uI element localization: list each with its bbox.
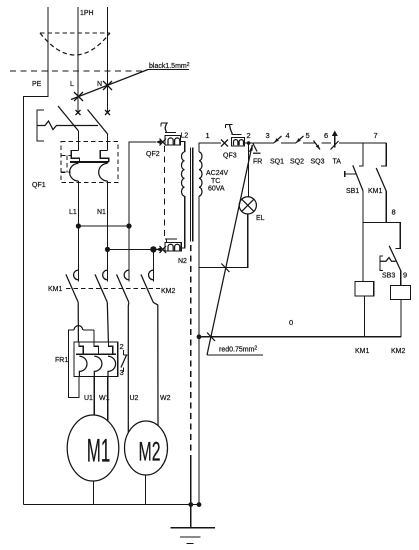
node junction ground <box>188 502 193 507</box>
wire FR1 loop back <box>68 326 94 398</box>
relay FR1 element 2 <box>94 330 102 377</box>
wire SB1 branch riser <box>359 143 363 166</box>
contact FR normally closed <box>253 144 261 154</box>
svg-text:M2: M2 <box>139 437 161 467</box>
contactor KM2 main contact pole1 <box>117 270 130 302</box>
svg-text:1PH: 1PH <box>80 10 94 17</box>
wire PE drop <box>24 7 49 505</box>
wire KM1 pole1 down <box>77 302 79 342</box>
svg-text:2: 2 <box>120 342 124 351</box>
relay FR1 box <box>74 342 118 377</box>
svg-text:KM1: KM1 <box>48 286 63 293</box>
svg-text:L: L <box>70 81 74 88</box>
svg-text:N: N <box>97 81 102 88</box>
svg-text:TC: TC <box>211 178 220 185</box>
wire SQ1 to SQ2 <box>281 142 296 144</box>
boundary dashed separator <box>10 70 145 72</box>
wire KM1 branch down <box>385 191 387 222</box>
wire SB1 branch down <box>362 191 364 282</box>
svg-text:9: 9 <box>403 271 407 280</box>
svg-text:W1: W1 <box>99 395 110 402</box>
svg-text:TA: TA <box>333 159 342 166</box>
breaker QF1 box <box>61 142 118 183</box>
wire SB3 riser <box>395 222 400 248</box>
svg-text:QF2: QF2 <box>146 151 160 158</box>
breaker QF3 <box>221 125 245 147</box>
wire rail N1 tap <box>108 248 161 250</box>
wire rail L1 tap <box>78 225 129 227</box>
breaker QF1 trip linkage dashes <box>61 156 71 173</box>
svg-text:L2: L2 <box>181 133 189 140</box>
breaker QF1 thermal element L <box>71 131 79 162</box>
svg-text:N1: N1 <box>97 209 106 216</box>
wire SQ2 to SQ3 <box>303 142 315 144</box>
switch SQ1 <box>274 136 282 143</box>
svg-text:EL: EL <box>256 215 265 222</box>
coil KM2 <box>391 286 411 300</box>
wire U1 lead <box>93 377 95 416</box>
svg-text:5: 5 <box>306 131 310 140</box>
breaker QF2 bottom pole N2 <box>156 239 181 253</box>
svg-text:PE: PE <box>32 81 42 88</box>
node X crossing on N <box>103 81 112 90</box>
svg-text:0: 0 <box>289 318 293 327</box>
svg-text:M1: M1 <box>87 433 111 469</box>
contactor linkage dashed <box>66 288 160 290</box>
node junction N1 tap <box>150 246 156 252</box>
coil KM1 <box>355 282 374 297</box>
svg-text:7: 7 <box>374 131 378 140</box>
svg-text:SB1: SB1 <box>346 188 359 195</box>
svg-text:2: 2 <box>247 131 251 140</box>
wire lamp bottom <box>199 214 248 268</box>
wire TA to corner <box>339 142 386 144</box>
svg-text:KM2: KM2 <box>161 288 176 295</box>
svg-text:U2: U2 <box>130 395 139 402</box>
wire KM1 pole2 down <box>107 302 108 342</box>
wire KM1 coil down <box>364 296 366 337</box>
transformer TC primary <box>182 152 185 196</box>
breaker QF1 pole L blade <box>58 106 79 131</box>
svg-text:60VA: 60VA <box>208 186 225 193</box>
contact FR1 auxiliary <box>120 342 128 377</box>
wire ground stem <box>190 460 192 528</box>
node junction L1 tap <box>126 223 131 228</box>
breaker QF1 thermal element N <box>100 135 108 163</box>
svg-text:QF1: QF1 <box>32 182 46 189</box>
node X crossing lamp wire <box>221 264 229 273</box>
breaker QF2 linkage <box>164 146 166 238</box>
breaker QF1 pole N blade <box>88 110 109 135</box>
wire secondary top to QF3 <box>199 143 221 152</box>
svg-text:N2: N2 <box>178 258 187 265</box>
wire N1 <box>107 181 109 282</box>
node junction L1 <box>76 223 81 228</box>
motor M1 <box>67 415 119 481</box>
wire W1 lead <box>107 377 109 422</box>
node x mark N terminal <box>105 110 110 115</box>
relay FR1 crossbar <box>76 353 116 355</box>
breaker QF1 handle <box>37 110 98 141</box>
wire QF3 to SQ1 <box>245 142 275 144</box>
svg-text:KM1: KM1 <box>355 348 370 355</box>
switch SQ2 <box>296 136 304 143</box>
wire L drop <box>77 7 79 113</box>
svg-text:KM2: KM2 <box>391 348 406 355</box>
wire KM2 pole2 down <box>153 302 158 425</box>
relay FR1 element 1 <box>79 342 87 377</box>
wire N drop <box>107 7 109 113</box>
breaker QF1 crossbar <box>70 161 109 163</box>
wire KM2 coil down <box>400 300 402 337</box>
transformer TC core <box>191 148 193 242</box>
wire QF2 to transformer <box>181 142 185 152</box>
wire black1.5mm2 leader <box>71 62 190 100</box>
svg-text:SB3: SB3 <box>382 273 395 280</box>
svg-text:FR: FR <box>253 159 262 166</box>
svg-text:FR1: FR1 <box>55 357 68 364</box>
wire primary to N2 breaker <box>181 196 185 248</box>
transformer TC secondary <box>199 152 202 196</box>
contactor KM2 main contact pole2 <box>141 270 154 302</box>
svg-text:8: 8 <box>392 208 396 217</box>
contact KM1 auxiliary <box>376 168 386 191</box>
wire SQ3 to TA <box>322 142 332 144</box>
node x mark L terminal <box>76 110 81 115</box>
wire KM1 branch riser <box>381 143 386 166</box>
svg-text:SQ1: SQ1 <box>270 159 284 166</box>
node X crossing rail 0 <box>207 333 215 342</box>
lamp EL branch <box>248 143 250 197</box>
node junction lamp tap <box>247 141 251 145</box>
svg-text:3: 3 <box>120 368 124 377</box>
svg-text:KM1: KM1 <box>368 188 383 195</box>
svg-text:6: 6 <box>324 131 328 140</box>
wire bottom rail <box>24 504 202 506</box>
wire secondary down rail <box>198 196 200 505</box>
wire KM2 pole2 riser <box>152 249 154 281</box>
wire QF2 feed riser <box>129 142 156 282</box>
svg-text:W2: W2 <box>160 395 171 402</box>
svg-text:3: 3 <box>266 131 270 140</box>
transformer TC rating label <box>206 170 229 193</box>
node junction N1 <box>105 247 110 252</box>
breaker QF1 magnetic element L <box>70 163 79 181</box>
ground <box>171 528 216 544</box>
svg-text:QF3: QF3 <box>223 153 237 160</box>
svg-text:SQ3: SQ3 <box>311 159 325 166</box>
svg-text:1: 1 <box>206 131 210 140</box>
wire SB3 to KM2 coil <box>400 271 402 286</box>
svg-text:U1: U1 <box>84 395 93 402</box>
svg-text:red0.75mm2: red0.75mm2 <box>219 346 257 354</box>
relay FR1 element 3 <box>108 342 116 377</box>
boundary dashed vertical <box>190 245 192 460</box>
wire M2 bottom <box>144 475 146 505</box>
switch TA <box>331 131 339 150</box>
wire M1 bottom <box>93 481 95 505</box>
node junction rail end <box>197 502 202 507</box>
contactor KM1 main contact pole2 <box>95 270 108 302</box>
button SB3 <box>380 246 401 271</box>
wire KM2 pole1 down <box>127 302 130 432</box>
svg-text:4: 4 <box>286 131 290 140</box>
button SB1 <box>345 165 363 190</box>
breaker QF1 magnetic element N <box>99 163 108 181</box>
wire rail 0 <box>199 336 401 338</box>
svg-text:black1.5mm2: black1.5mm2 <box>149 62 190 70</box>
wire L1 <box>77 181 79 282</box>
motor M2 <box>125 421 168 475</box>
node junction 0 rail <box>197 334 202 339</box>
lamp EL <box>239 197 256 214</box>
svg-text:AC24V: AC24V <box>206 170 229 177</box>
wire node 8 rail <box>363 221 401 223</box>
node X crossing on L <box>74 92 83 101</box>
breaker QF2 top pole <box>156 123 181 146</box>
svg-text:SQ2: SQ2 <box>290 159 304 166</box>
supply cable arc <box>40 33 110 55</box>
switch SQ3 <box>314 141 321 150</box>
contactor KM1 main contact pole1 <box>66 270 79 302</box>
wire red0.75mm2 leader <box>207 144 263 355</box>
svg-text:L1: L1 <box>69 209 77 216</box>
